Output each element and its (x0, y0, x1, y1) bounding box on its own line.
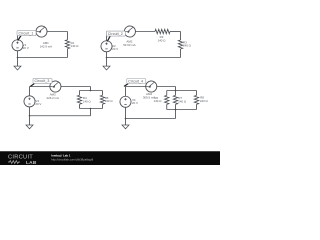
wire R7 bottom lead (174, 104, 177, 109)
wire exit down c3 (89, 109, 92, 116)
svg-text:Circuit_1: Circuit_1 (19, 31, 34, 35)
node junction c1 (17, 57, 19, 59)
node junction c4 bottom bus (175, 109, 177, 111)
svg-text:52.63 mA: 52.63 mA (123, 43, 135, 47)
voltage source V4 (120, 96, 131, 107)
node junction c3 bottom bus (90, 108, 92, 110)
wire V1 top lead (16, 32, 19, 40)
wire R4 top lead (78, 91, 81, 96)
wire ground lead c3 (28, 116, 31, 125)
resistor R8 (194, 95, 198, 104)
node junction c2 (106, 57, 108, 59)
resistor R3 (178, 40, 182, 49)
svg-text:140 Ω: 140 Ω (158, 38, 167, 42)
svg-text:142.9 mA: 142.9 mA (40, 45, 52, 49)
wire ground lead c4 (124, 119, 127, 126)
resistor R2 (horizontal) (155, 29, 170, 33)
wire top rail left (corner to AM3) (30, 85, 50, 88)
svg-text:226.2 mA: 226.2 mA (47, 96, 59, 100)
wire top rail left (corner to AM4) (126, 85, 146, 88)
wire R1 top lead (66, 32, 69, 40)
ammeter AM1 (36, 26, 47, 37)
wire bottom rail c3 (30, 114, 91, 117)
svg-text:240 Ω: 240 Ω (200, 99, 209, 103)
wire R3 top lead (179, 32, 182, 41)
wire V4 top lead (124, 87, 127, 97)
wire R8 bottom lead (195, 104, 198, 109)
node junction c4 left (125, 118, 127, 120)
wire R7 top lead (174, 91, 177, 96)
resistor R1 (65, 40, 69, 49)
wire R8 top lead (195, 91, 198, 96)
name box Circuit_1 (18, 36, 21, 41)
wire bottom rail c2 (107, 56, 181, 59)
wire V4 bottom lead (124, 107, 127, 118)
ammeter AM3 (50, 81, 61, 92)
wire V2 bottom lead (105, 52, 108, 58)
svg-text:Circuit_3: Circuit_3 (35, 79, 50, 83)
wire bottom rail (18, 56, 68, 59)
wire R5 top lead (101, 91, 104, 96)
svg-text:140 Ω: 140 Ω (83, 99, 92, 103)
wire R6 bottom lead (165, 104, 168, 109)
wire R3 bottom lead (179, 49, 182, 58)
voltage source V1 (12, 40, 23, 51)
name box Circuit_2 (107, 36, 110, 41)
wire bottom bus c4 (167, 108, 197, 111)
wire V1 bottom lead (16, 51, 19, 58)
name box Circuit_3 (30, 83, 34, 86)
node junction c3 top bus (90, 90, 92, 92)
wire drop into parallel bus (89, 87, 92, 91)
wire R1 bottom lead (66, 49, 69, 58)
wire R5 bottom lead (101, 104, 104, 108)
wire top bus c4 (167, 89, 197, 92)
node junction c3 left (29, 115, 31, 117)
svg-text:140 Ω: 140 Ω (71, 44, 80, 48)
svg-text:240 Ω: 240 Ω (183, 44, 192, 48)
svg-text:240 Ω: 240 Ω (105, 99, 114, 103)
svg-text:140 Ω: 140 Ω (154, 99, 163, 103)
name box Circuit_4 (124, 84, 128, 87)
voltage source V2 (101, 41, 112, 52)
ground c3 (26, 125, 33, 129)
svg-text:309.5 mA: 309.5 mA (143, 95, 155, 99)
svg-text:20 V: 20 V (132, 101, 138, 105)
wire R4 bottom lead (78, 104, 81, 108)
ground c4 (122, 125, 129, 129)
svg-text:240 Ω: 240 Ω (178, 99, 187, 103)
wire AM2 to R2 (135, 30, 155, 33)
wire top rail left (V2 to AM2) (107, 30, 125, 33)
resistor R7 (173, 95, 177, 104)
voltage source V3 (24, 96, 35, 107)
wire bottom bus c3 (80, 107, 103, 110)
ammeter AM2 (124, 26, 135, 37)
wire ground lead c1 (16, 58, 19, 67)
ground c1 (14, 66, 21, 70)
svg-text:Circuit_2: Circuit_2 (108, 32, 123, 36)
resistor R4 (77, 95, 81, 104)
wire R2 to corner (170, 30, 181, 33)
resistor R5 (100, 95, 104, 104)
wire ground lead c2 (105, 58, 108, 67)
wire bottom rail c4 (126, 117, 176, 120)
svg-text:Circuit_4: Circuit_4 (128, 79, 143, 83)
svg-text:AM1: AM1 (43, 41, 49, 45)
node junction c4 top bus (175, 90, 177, 92)
svg-text:20 V: 20 V (23, 46, 29, 50)
svg-text:20 V: 20 V (35, 102, 41, 106)
wire top bus c3 (80, 89, 103, 92)
wire V3 bottom lead (28, 107, 31, 116)
wire AM4 to drop (157, 85, 176, 88)
wire top rail right (AM1 to R1) (47, 30, 67, 33)
wire top rail left (V1 top to AM1) (18, 30, 36, 33)
ammeter AM4 (146, 81, 157, 92)
wire V2 top lead (105, 32, 108, 41)
wire drop into parallel bus c4 (174, 87, 177, 91)
svg-text:lombuj / Lab 1: lombuj / Lab 1 (51, 153, 71, 157)
ground c2 (103, 66, 110, 70)
wire AM3 to drop (61, 85, 91, 88)
svg-text:20 V: 20 V (112, 47, 118, 51)
svg-text:CIRCUIT: CIRCUIT (8, 154, 33, 160)
wire exit down c4 (174, 110, 177, 119)
wire R6 top lead (165, 91, 168, 96)
resistor R6 (165, 95, 169, 104)
wire V3 top lead (28, 87, 31, 96)
